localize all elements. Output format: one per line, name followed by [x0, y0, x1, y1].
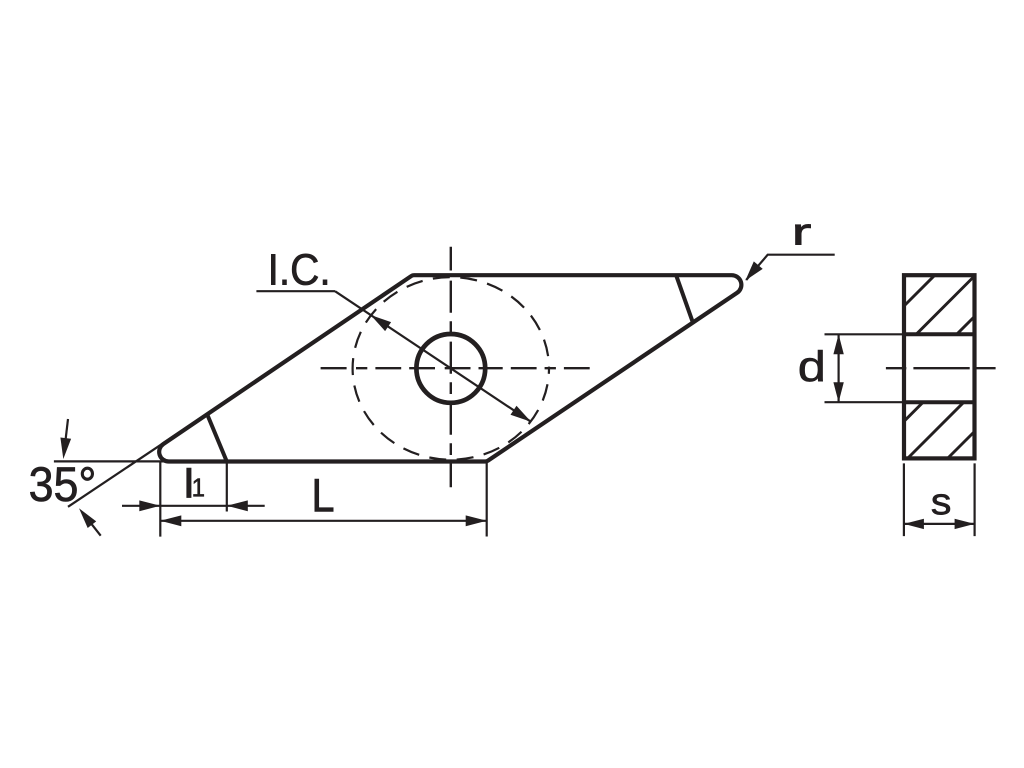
35 deg edge extension line [68, 435, 175, 507]
35 deg baseline extension line [54, 460, 170, 462]
label 35deg [30, 467, 93, 502]
I.C. diameter arrow (across inscribed circle) [335, 291, 531, 422]
d extension line bottom [825, 401, 903, 403]
label I.C. [271, 254, 327, 285]
horizontal centerline (main view) [321, 367, 590, 369]
extension line at right bottom vertex [486, 462, 488, 537]
hatching top band [904, 275, 935, 306]
extension line at left tip [159, 462, 161, 537]
s extension line left [903, 463, 905, 536]
inscribed circle I.C. (dashed) [353, 277, 549, 460]
s dimension arrow [904, 523, 975, 525]
corner radius leader r [746, 255, 835, 280]
side view divider bottom [904, 400, 975, 404]
dimension line l1 (outside arrows) [122, 505, 265, 507]
right corner facet line [676, 275, 692, 321]
insert outline (main view, 35 deg rhombic insert) [159, 275, 741, 461]
dimension line L [160, 520, 486, 522]
center hole [416, 334, 485, 403]
s extension line right [973, 463, 975, 536]
left corner facet line [207, 415, 227, 462]
side view body outline [904, 275, 975, 458]
extension line l1 right [226, 462, 228, 512]
label d [800, 350, 823, 381]
35 deg arrow (up-left, at edge extension) [83, 513, 101, 536]
35 deg arrow (down, at baseline) [64, 419, 68, 453]
d dimension arrow [837, 334, 839, 402]
label s [932, 494, 950, 514]
label L [315, 479, 333, 511]
side view divider top [904, 332, 975, 336]
hatching bottom band [904, 402, 923, 421]
label l1 [187, 468, 191, 498]
d extension line top [825, 333, 903, 335]
side view horizontal centerline [886, 367, 906, 369]
vertical centerline (main view) [450, 247, 452, 487]
I.C. leader underline [256, 290, 335, 292]
label r [796, 225, 811, 245]
